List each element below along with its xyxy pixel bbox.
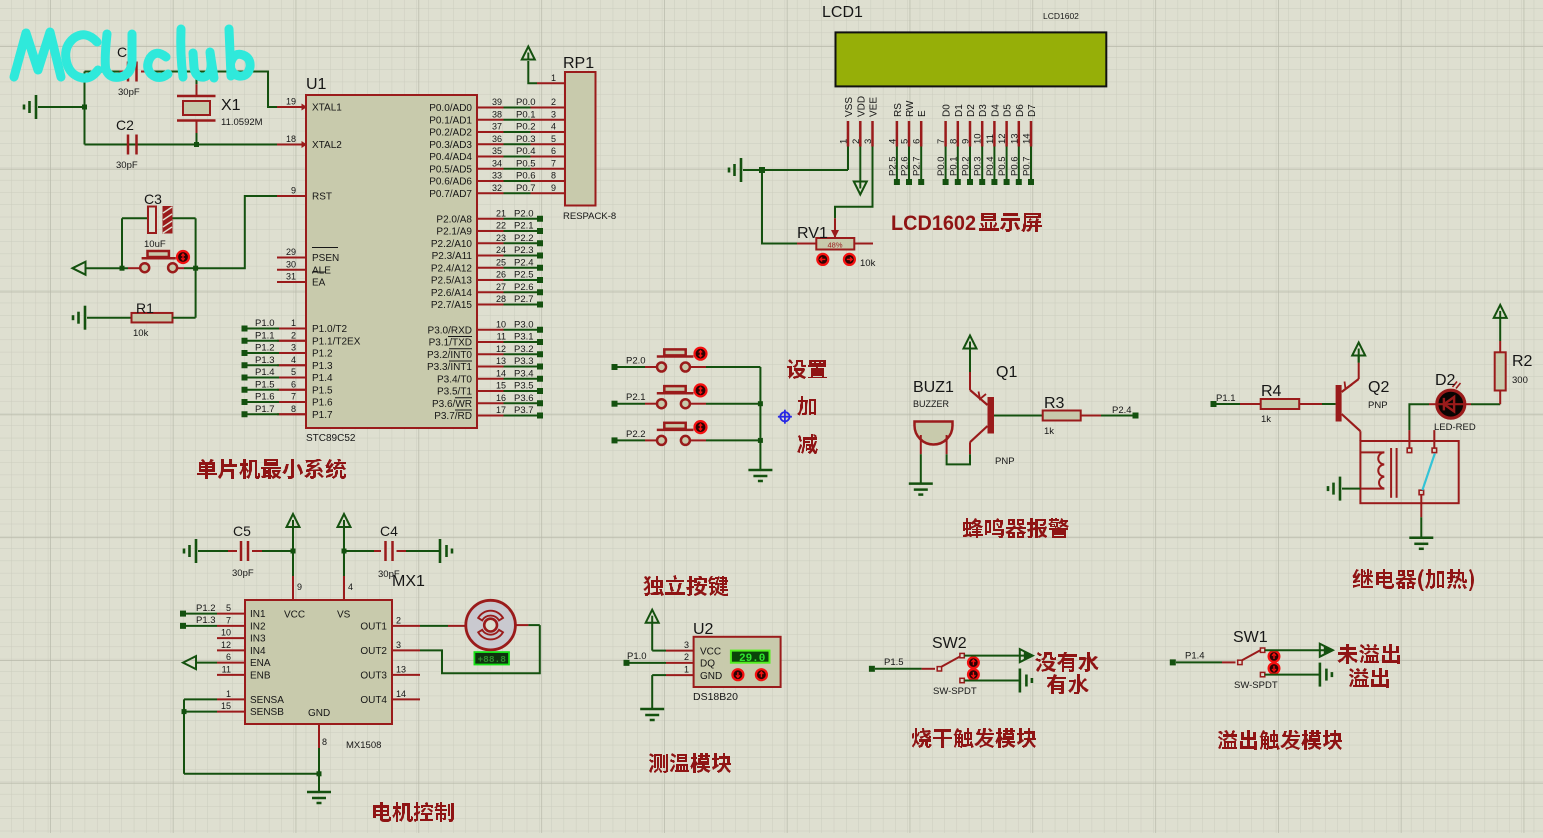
svg-text:P0.4: P0.4 — [985, 156, 996, 176]
svg-text:P0.1/AD1: P0.1/AD1 — [429, 115, 472, 126]
relay lever — [1422, 454, 1434, 491]
power arrow — [1352, 343, 1365, 363]
svg-text:E: E — [917, 110, 928, 117]
svg-text:P1.4: P1.4 — [312, 373, 333, 384]
svg-text:P0.3: P0.3 — [973, 156, 984, 176]
VSS wire — [847, 147, 849, 171]
resistor pack RP1 RESPACK-8 — [563, 55, 616, 222]
RP1 pin numbers 2-9 — [551, 97, 556, 193]
svg-text:IN1: IN1 — [250, 609, 266, 620]
svg-text:36: 36 — [492, 134, 502, 144]
svg-text:VSS: VSS — [844, 97, 855, 117]
svg-text:7: 7 — [936, 139, 947, 144]
svg-text:P2.6: P2.6 — [514, 282, 534, 293]
svg-text:22: 22 — [496, 221, 506, 231]
svg-text:2: 2 — [684, 652, 689, 662]
U1 P3 pins with terminals — [427, 319, 543, 422]
svg-text:P2.2: P2.2 — [514, 233, 534, 244]
svg-text:33: 33 — [492, 171, 502, 181]
svg-text:RW: RW — [905, 100, 916, 117]
svg-text:P3.2: P3.2 — [514, 344, 534, 355]
output terminal arrow — [1020, 649, 1033, 662]
svg-text:Q1: Q1 — [996, 364, 1017, 381]
svg-text:15: 15 — [221, 701, 231, 711]
svg-text:P0.7: P0.7 — [1022, 156, 1033, 176]
svg-text:D2: D2 — [966, 104, 977, 117]
svg-text:D1: D1 — [954, 104, 965, 117]
svg-text:LCD1: LCD1 — [822, 4, 863, 21]
wire — [1265, 674, 1319, 676]
svg-text:P2.2/A10: P2.2/A10 — [431, 239, 473, 250]
svg-text:21: 21 — [496, 208, 506, 218]
label 测温模块 — [649, 753, 731, 773]
svg-text:1k: 1k — [1261, 414, 1271, 425]
svg-text:19: 19 — [286, 97, 296, 107]
svg-text:6: 6 — [551, 146, 556, 156]
terminal P1.1 — [1211, 393, 1236, 407]
svg-text:11.0592M: 11.0592M — [221, 117, 263, 128]
U1 left pin stubs with numbers and names — [277, 97, 361, 421]
LCD pins with rotated names and numbers — [839, 96, 1039, 147]
svg-text:P3.6/WR: P3.6/WR — [432, 399, 472, 410]
svg-text:P0.6: P0.6 — [516, 171, 536, 182]
svg-text:RESPACK-8: RESPACK-8 — [563, 211, 616, 222]
svg-text:OUT4: OUT4 — [360, 695, 387, 706]
svg-text:P0.5: P0.5 — [516, 158, 536, 169]
svg-text:R2: R2 — [1512, 353, 1533, 370]
svg-text:3: 3 — [684, 640, 689, 650]
svg-text:P2.0: P2.0 — [514, 208, 534, 219]
svg-text:P0.5/AD5: P0.5/AD5 — [429, 164, 472, 175]
svg-text:25: 25 — [496, 257, 506, 267]
svg-text:IN4: IN4 — [250, 646, 266, 657]
svg-text:29: 29 — [286, 247, 296, 257]
svg-text:P2.6/A14: P2.6/A14 — [431, 288, 473, 299]
terminal P1.5 — [869, 657, 904, 672]
svg-text:7: 7 — [291, 392, 296, 402]
svg-text:RST: RST — [312, 192, 332, 203]
origin marker — [778, 410, 792, 424]
svg-text:P1.7: P1.7 — [255, 404, 275, 415]
svg-text:10uF: 10uF — [144, 239, 166, 250]
terminal P1.2 — [180, 603, 217, 617]
svg-text:BUZZER: BUZZER — [913, 399, 950, 409]
svg-text:U2: U2 — [693, 621, 714, 638]
svg-text:17: 17 — [496, 405, 506, 415]
svg-text:P1.2: P1.2 — [255, 343, 275, 354]
label 溢出触发模块 — [1218, 730, 1342, 750]
svg-text:P0.3: P0.3 — [516, 134, 536, 145]
svg-text:15: 15 — [496, 381, 506, 391]
svg-text:27: 27 — [496, 282, 506, 292]
motor MX1 — [420, 600, 528, 650]
svg-text:C2: C2 — [116, 117, 134, 133]
power arrow — [646, 610, 659, 651]
svg-text:37: 37 — [492, 122, 502, 132]
svg-text:XTAL1: XTAL1 — [312, 103, 342, 114]
svg-text:P2.1: P2.1 — [626, 392, 646, 403]
wire — [122, 218, 196, 268]
svg-text:EA: EA — [312, 278, 326, 289]
SENSA SENSB wires — [182, 699, 320, 773]
svg-text:R1: R1 — [136, 300, 154, 316]
svg-text:SW-SPDT: SW-SPDT — [1234, 680, 1278, 691]
terminal P1.3 — [180, 615, 217, 629]
label 减 — [797, 434, 818, 454]
svg-text:P3.0: P3.0 — [514, 319, 534, 330]
svg-text:P1.6: P1.6 — [312, 398, 333, 409]
svg-text:VEE: VEE — [869, 97, 880, 117]
ground — [729, 158, 848, 182]
LCD1602 caption — [891, 211, 1042, 235]
U2 pins — [630, 640, 723, 709]
svg-text:P2.5: P2.5 — [514, 270, 534, 281]
node junction — [291, 549, 296, 554]
svg-text:12: 12 — [221, 640, 231, 650]
svg-text:P2.7: P2.7 — [514, 294, 534, 305]
svg-text:P1.1: P1.1 — [1216, 393, 1236, 404]
U2 buttons — [732, 669, 767, 680]
svg-text:P0.6/AD6: P0.6/AD6 — [429, 177, 472, 188]
svg-text:13: 13 — [396, 664, 406, 674]
svg-text:R4: R4 — [1261, 383, 1282, 400]
svg-text:4: 4 — [291, 355, 296, 365]
crystal X1 — [177, 72, 263, 145]
svg-text:1: 1 — [551, 73, 556, 83]
svg-text:6: 6 — [291, 379, 296, 389]
wire to RST — [196, 196, 277, 268]
svg-text:C4: C4 — [380, 523, 398, 539]
RP1 pin 1 to power — [522, 47, 565, 84]
svg-text:OUT3: OUT3 — [360, 670, 387, 681]
P1.0-P1.7 input terminals — [242, 318, 308, 417]
svg-text:5: 5 — [291, 367, 296, 377]
wire — [1265, 649, 1326, 651]
svg-text:GND: GND — [700, 671, 722, 682]
node junction — [342, 549, 347, 554]
svg-text:P1.4: P1.4 — [1185, 651, 1205, 662]
svg-text:P2.2: P2.2 — [626, 429, 646, 440]
wire bus to ground — [758, 367, 763, 470]
svg-text:P2.3: P2.3 — [514, 245, 534, 256]
svg-text:2: 2 — [851, 139, 862, 144]
LCD data wires with terminals and net labels — [887, 147, 1034, 186]
power arrow — [287, 514, 300, 551]
wire — [84, 72, 86, 145]
svg-text:P0.2/AD2: P0.2/AD2 — [429, 128, 472, 139]
wire — [85, 72, 278, 108]
svg-text:DS18B20: DS18B20 — [693, 691, 738, 703]
svg-text:P1.4: P1.4 — [255, 367, 275, 378]
svg-text:P3.2/INT0: P3.2/INT0 — [427, 350, 472, 361]
svg-text:IN3: IN3 — [250, 634, 266, 645]
svg-text:4: 4 — [887, 139, 898, 144]
output terminal arrow — [1320, 644, 1333, 657]
node junction — [759, 167, 765, 173]
MX1508 left pins — [217, 603, 351, 719]
svg-text:P1.3: P1.3 — [196, 615, 216, 626]
svg-text:2: 2 — [396, 615, 401, 625]
label 没有水 — [1035, 652, 1099, 672]
svg-text:LED-RED: LED-RED — [1434, 422, 1476, 433]
MX1508 right pins — [360, 615, 420, 706]
svg-text:ALE: ALE — [312, 265, 331, 276]
svg-text:P2.4/A12: P2.4/A12 — [431, 263, 473, 274]
svg-text:P1.0: P1.0 — [255, 318, 275, 329]
svg-text:P2.5/A13: P2.5/A13 — [431, 276, 473, 287]
svg-text:PNP: PNP — [1368, 400, 1388, 411]
transistor Q1 PNP — [970, 364, 1017, 467]
motor wires — [420, 625, 540, 673]
svg-text:P3.1: P3.1 — [514, 332, 534, 343]
svg-text:11: 11 — [985, 134, 996, 144]
svg-text:P0.2: P0.2 — [961, 156, 972, 176]
label 继电器(加热) — [1352, 569, 1474, 591]
svg-text:PNP: PNP — [995, 456, 1015, 467]
svg-text:P3.4/T0: P3.4/T0 — [437, 374, 472, 385]
resistor R2 300 — [1495, 318, 1533, 404]
svg-text:P1.1/T2EX: P1.1/T2EX — [312, 336, 361, 347]
svg-text:8: 8 — [291, 404, 296, 414]
ground — [24, 95, 85, 119]
svg-text:P2.7: P2.7 — [912, 156, 923, 176]
svg-text:X1: X1 — [221, 97, 241, 114]
ground — [640, 709, 664, 720]
svg-text:P1.5: P1.5 — [312, 385, 333, 396]
svg-text:C3: C3 — [144, 191, 162, 207]
svg-text:P1.5: P1.5 — [884, 657, 904, 668]
label 加 — [797, 396, 816, 416]
svg-text:9: 9 — [297, 582, 302, 592]
svg-text:14: 14 — [1022, 133, 1033, 144]
svg-text:SENSA: SENSA — [250, 695, 284, 706]
svg-text:ENA: ENA — [250, 658, 271, 669]
svg-text:48%: 48% — [827, 241, 842, 250]
MX1 label — [392, 573, 425, 590]
svg-text:P3.1/TXD: P3.1/TXD — [429, 338, 472, 349]
svg-text:P0.6: P0.6 — [1009, 156, 1020, 176]
svg-text:P0.0: P0.0 — [936, 156, 947, 176]
svg-text:P3.3/INT1: P3.3/INT1 — [427, 362, 472, 373]
svg-text:XTAL2: XTAL2 — [312, 140, 342, 151]
svg-text:11: 11 — [222, 664, 231, 674]
svg-text:30pF: 30pF — [116, 160, 138, 171]
svg-text:P1.2: P1.2 — [196, 603, 216, 614]
label 溢出 — [1349, 668, 1389, 688]
svg-text:P2.1: P2.1 — [514, 221, 534, 232]
svg-text:3: 3 — [551, 109, 556, 119]
svg-text:39: 39 — [492, 97, 502, 107]
svg-text:10k: 10k — [133, 328, 149, 339]
capacitor C5 30pF — [184, 523, 293, 579]
wire — [964, 655, 1026, 657]
svg-text:P3.0/RXD: P3.0/RXD — [428, 325, 472, 336]
svg-text:VCC: VCC — [700, 647, 721, 658]
svg-text:P2.1/A9: P2.1/A9 — [436, 227, 472, 238]
svg-text:RV1: RV1 — [797, 225, 828, 242]
svg-text:RP1: RP1 — [563, 55, 594, 72]
wire pin9 — [293, 551, 302, 600]
svg-text:P1.3: P1.3 — [255, 355, 275, 366]
VEE wire to RV1 wiper — [831, 147, 873, 239]
svg-text:8: 8 — [551, 171, 556, 181]
wire — [921, 454, 970, 483]
terminal P2.4 — [1112, 405, 1139, 419]
svg-text:10: 10 — [221, 628, 231, 638]
svg-text:SW1: SW1 — [1233, 629, 1268, 646]
switch SW2 SW-SPDT — [875, 635, 979, 697]
svg-text:LCD1602: LCD1602 — [891, 211, 976, 235]
svg-text:29.0: 29.0 — [739, 653, 765, 665]
resistor R4 1k — [1217, 383, 1336, 425]
MCUclub logo — [14, 29, 250, 78]
svg-text:BUZ1: BUZ1 — [913, 379, 954, 396]
capacitor C2 — [116, 117, 138, 171]
svg-text:P0.0: P0.0 — [516, 97, 536, 108]
svg-text:SENSB: SENSB — [250, 707, 284, 718]
svg-text:31: 31 — [286, 272, 296, 282]
svg-text:SW-SPDT: SW-SPDT — [933, 686, 977, 697]
svg-text:D6: D6 — [1015, 104, 1026, 117]
label 设置 — [787, 359, 827, 379]
svg-text:30pF: 30pF — [118, 87, 140, 98]
svg-text:OUT2: OUT2 — [360, 646, 387, 657]
svg-text:P0.2: P0.2 — [516, 122, 536, 133]
LCD1 label — [822, 4, 1079, 21]
svg-text:C: C — [117, 44, 127, 60]
wire pin4 — [344, 551, 353, 600]
svg-text:1k: 1k — [1044, 426, 1054, 437]
ground — [1328, 477, 1360, 501]
MX1508 chip U3 body — [245, 600, 392, 751]
svg-text:+88.8: +88.8 — [477, 654, 506, 665]
svg-text:8: 8 — [948, 139, 959, 144]
svg-text:MX1: MX1 — [392, 573, 425, 590]
svg-text:2: 2 — [291, 330, 296, 340]
svg-text:P3.5/T1: P3.5/T1 — [437, 387, 472, 398]
svg-text:P0.4: P0.4 — [516, 146, 536, 157]
svg-text:P2.7/A15: P2.7/A15 — [431, 300, 473, 311]
reset button — [86, 251, 196, 272]
svg-text:1: 1 — [684, 665, 689, 675]
svg-text:P3.5: P3.5 — [514, 381, 534, 392]
svg-text:P3.7: P3.7 — [514, 405, 534, 416]
node junction — [120, 266, 199, 271]
LED D2 LED-RED — [1409, 372, 1500, 433]
svg-text:P1.3: P1.3 — [312, 361, 333, 372]
motor rpm display — [474, 652, 509, 665]
svg-text:1: 1 — [839, 139, 850, 144]
svg-text:2: 2 — [551, 97, 556, 107]
svg-text:P3.3: P3.3 — [514, 356, 534, 367]
capacitor C4 30pF — [344, 523, 452, 580]
svg-text:9: 9 — [961, 139, 972, 144]
svg-text:8: 8 — [322, 737, 327, 747]
power arrow — [338, 514, 351, 551]
svg-text:D5: D5 — [1003, 104, 1014, 117]
svg-text:P1.0: P1.0 — [627, 651, 647, 662]
svg-text:9: 9 — [551, 183, 556, 193]
svg-text:14: 14 — [496, 368, 506, 378]
svg-text:P1.1: P1.1 — [255, 330, 275, 341]
svg-text:13: 13 — [496, 356, 506, 366]
svg-text:R3: R3 — [1044, 395, 1065, 412]
svg-text:ENB: ENB — [250, 670, 271, 681]
svg-text:3: 3 — [291, 343, 296, 353]
svg-text:34: 34 — [492, 158, 502, 168]
wire — [85, 144, 278, 146]
switch SW1 SW-SPDT — [1176, 629, 1279, 691]
svg-text:11: 11 — [497, 332, 506, 342]
svg-text:P1.7: P1.7 — [312, 410, 333, 421]
capacitor C3 — [122, 191, 196, 250]
svg-text:P1.5: P1.5 — [255, 379, 275, 390]
svg-text:9: 9 — [291, 186, 296, 196]
U1 P2 pins with terminals — [431, 208, 543, 311]
svg-text:P0.0/AD0: P0.0/AD0 — [429, 103, 472, 114]
svg-text:P2.4: P2.4 — [1112, 405, 1132, 416]
svg-text:12: 12 — [997, 133, 1008, 144]
svg-text:P2.4: P2.4 — [514, 257, 534, 268]
svg-text:5: 5 — [226, 603, 231, 613]
svg-text:D7: D7 — [1027, 104, 1038, 117]
svg-text:P2.3/A11: P2.3/A11 — [432, 251, 473, 262]
svg-text:D3: D3 — [978, 104, 989, 117]
U2 DS18B20 body — [693, 621, 781, 703]
svg-text:4: 4 — [348, 582, 353, 592]
U1 STC89C52 body — [306, 76, 477, 444]
ground — [1020, 669, 1032, 693]
svg-text:P0.7/AD7: P0.7/AD7 — [429, 189, 472, 200]
svg-text:P0.1: P0.1 — [948, 156, 959, 176]
svg-text:VS: VS — [337, 610, 351, 621]
label 独立按键 — [643, 575, 728, 596]
svg-text:C5: C5 — [233, 523, 251, 539]
svg-text:STC89C52: STC89C52 — [306, 433, 356, 444]
svg-text:7: 7 — [551, 158, 556, 168]
svg-text:16: 16 — [496, 393, 506, 403]
svg-text:P0.5: P0.5 — [997, 156, 1008, 176]
svg-text:P0.4/AD4: P0.4/AD4 — [429, 152, 472, 163]
ground — [748, 470, 772, 481]
svg-text:30: 30 — [286, 259, 296, 269]
terminal P1.4 — [1170, 651, 1205, 666]
ground — [1409, 538, 1433, 549]
svg-text:P0.3/AD3: P0.3/AD3 — [429, 140, 472, 151]
svg-text:300: 300 — [1512, 375, 1528, 386]
resistor R3 1k — [994, 395, 1133, 437]
VDD power down arrow — [854, 147, 867, 195]
label 烧干触发模块 — [912, 728, 1036, 748]
label 单片机最小系统 — [197, 459, 346, 479]
GND pin 8 wire — [317, 724, 328, 792]
label 有水 — [1047, 674, 1089, 694]
svg-text:28: 28 — [496, 294, 506, 304]
svg-text:P2.5: P2.5 — [887, 156, 898, 176]
svg-text:P0.7: P0.7 — [516, 183, 536, 194]
svg-text:1: 1 — [291, 318, 296, 328]
svg-text:18: 18 — [286, 134, 296, 144]
svg-text:26: 26 — [496, 270, 506, 280]
svg-text:P3.4: P3.4 — [514, 368, 534, 379]
svg-text:MX1508: MX1508 — [346, 740, 381, 751]
svg-text:P1.0/T2: P1.0/T2 — [312, 324, 347, 335]
label 蜂鸣器报警 — [963, 518, 1069, 538]
svg-text:VCC: VCC — [284, 610, 305, 621]
svg-text:5: 5 — [551, 134, 556, 144]
ground — [1320, 663, 1332, 687]
svg-text:RS: RS — [893, 103, 904, 117]
